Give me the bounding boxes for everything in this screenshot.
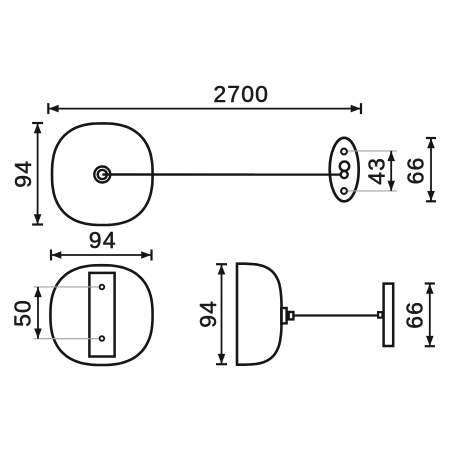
clothesline cord from reel to wall hook <box>102 173 340 176</box>
dim 66 plate top tick <box>425 282 435 284</box>
dimension 66 (bracket height) line <box>430 138 432 201</box>
dim 94 side top arrowhead <box>218 265 226 275</box>
top view housing (rounded-square reel body) <box>52 123 153 225</box>
dimension 2700 left arrowhead <box>49 105 59 113</box>
dim 43 bottom arrowhead <box>387 181 395 191</box>
side view wall plate <box>384 284 394 346</box>
svg-text:66: 66 <box>403 157 429 185</box>
dimension 2700 right tick <box>360 103 362 114</box>
svg-text:94: 94 <box>195 300 221 328</box>
dim 66 bottom tick <box>426 200 436 202</box>
dim 66 bottom arrowhead <box>427 191 435 201</box>
side view hook nub <box>378 312 382 318</box>
dim 94 width right arrowhead <box>141 251 151 259</box>
dimension 43 line <box>390 151 392 191</box>
dim 43 top arrowhead <box>387 151 395 161</box>
dimension 94 (front view width) line <box>51 254 152 256</box>
top view spool hub inner circle <box>98 170 107 179</box>
svg-text:94: 94 <box>10 160 36 188</box>
dim 50 bottom arrowhead <box>34 329 42 339</box>
wall hook bracket oval plate <box>330 138 359 201</box>
dimension 50 line <box>37 287 39 339</box>
svg-text:2700: 2700 <box>213 81 269 107</box>
dim 66 plate bottom arrowhead <box>426 336 434 346</box>
dim 94 width left tick <box>50 250 52 261</box>
dimension 2700 left tick <box>47 103 49 114</box>
bracket keyhole large circle <box>340 162 349 171</box>
front view mounting plate rectangle <box>89 273 114 357</box>
dim 50 bottom extension line <box>34 338 99 340</box>
dim 94 top tick <box>32 122 43 124</box>
dim 66 top arrowhead <box>427 138 435 148</box>
dim 94 bottom tick <box>32 223 43 225</box>
dim 94 width left arrowhead <box>51 251 61 259</box>
dimension 66 (wall plate height) line <box>429 284 431 347</box>
dim 50 top extension line <box>34 286 99 288</box>
dim 43 top extension line <box>348 150 397 152</box>
dim 66 plate bottom tick <box>425 345 435 347</box>
dim 66 plate top arrowhead <box>426 284 434 294</box>
bracket top screw hole <box>341 149 347 155</box>
dim 43 bottom extension line <box>348 190 397 192</box>
front view housing (rounded-square body) <box>50 265 152 365</box>
dim 94 bottom arrowhead <box>34 214 42 224</box>
side view cord outlet step 2 <box>289 312 294 319</box>
svg-text:43: 43 <box>364 157 390 185</box>
dim 94 top arrowhead <box>34 123 42 133</box>
bracket bottom screw hole <box>341 188 347 194</box>
dim 94 side bottom arrowhead <box>218 354 226 364</box>
dim 50 top arrowhead <box>34 287 42 297</box>
top view spool hub outer circle <box>94 167 110 183</box>
dimension 94 (top view height) line <box>37 123 39 225</box>
dimension 2700 right arrowhead <box>351 105 361 113</box>
mounting plate top screw hole <box>100 285 105 290</box>
dim 66 top tick <box>426 137 436 139</box>
mounting plate bottom screw hole <box>100 336 105 341</box>
dim 94 width right tick <box>150 250 152 261</box>
side view cord outlet step 1 <box>281 308 286 323</box>
svg-text:66: 66 <box>401 301 427 329</box>
side view cord line <box>293 314 378 316</box>
svg-text:94: 94 <box>89 227 117 253</box>
dimension 2700 line <box>48 108 361 110</box>
bracket keyhole small circle <box>341 171 348 178</box>
side view housing body <box>237 264 282 365</box>
dim 94 side bottom tick <box>216 363 227 365</box>
dim 94 side top tick <box>216 263 227 265</box>
svg-text:50: 50 <box>9 299 35 327</box>
dimension 94 (side view height) line <box>221 264 223 364</box>
